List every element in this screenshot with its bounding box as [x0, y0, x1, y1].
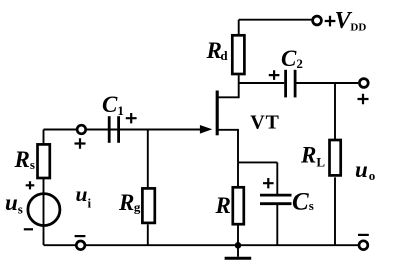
wire left branch vertical [43, 130, 45, 246]
wire R_L drop [334, 83, 336, 139]
wire C2 to output [296, 82, 358, 84]
label - of u_s [24, 228, 33, 230]
svg-text:ui: ui [76, 182, 92, 211]
wire R_L bottom [334, 177, 336, 245]
label - above input bottom terminal [75, 235, 86, 237]
wire R_g bottom [147, 224, 149, 245]
transistor VT channel bar [216, 91, 219, 136]
label - above output bottom terminal [358, 234, 369, 236]
wire bottom rail [44, 244, 359, 246]
resistor R_s [38, 144, 50, 178]
svg-text:DD: DD [350, 21, 366, 33]
terminal output top [359, 79, 368, 88]
wire C_s bottom [276, 204, 278, 245]
label + below input terminal [75, 138, 86, 148]
wire R drop [237, 162, 239, 186]
label + of C_s [263, 178, 274, 188]
svg-text:C2: C2 [281, 46, 303, 71]
wire source node horizontal [238, 161, 277, 163]
wire R_d top [238, 20, 240, 34]
capacitor C_s [260, 195, 292, 204]
wire VDD rail [239, 19, 312, 21]
svg-text:Rd: Rd [206, 38, 229, 63]
svg-text:C1: C1 [102, 92, 124, 118]
wire R_g drop [147, 130, 149, 188]
wire R bottom [237, 225, 239, 245]
label + of u_s [26, 181, 35, 189]
resistor R_L [330, 140, 341, 175]
ground [225, 245, 252, 258]
label + of C2 [269, 70, 280, 80]
svg-text:uo: uo [355, 157, 375, 183]
resistor R_g [142, 188, 154, 223]
svg-text:R: R [215, 193, 231, 218]
terminal input bottom [76, 241, 85, 250]
svg-text:us: us [5, 190, 23, 217]
capacitor C2 [286, 70, 296, 98]
junction dot [235, 242, 242, 249]
label + of output [358, 94, 369, 104]
wire input top [44, 129, 78, 131]
wire drain stub [218, 83, 238, 97]
svg-text:RL: RL [300, 143, 325, 170]
resistor R_d [232, 35, 244, 74]
label +VDD [325, 8, 367, 34]
svg-text:Rg: Rg [118, 190, 141, 215]
svg-text:Rs: Rs [14, 147, 35, 172]
capacitor C1 [109, 116, 118, 143]
svg-text:VT: VT [250, 112, 279, 134]
terminal +VDD [313, 16, 322, 25]
label + of C1 [126, 113, 137, 123]
wire C_s drop [276, 162, 278, 195]
resistor R [233, 187, 244, 224]
terminal input top [77, 125, 86, 134]
wire gate with arrow [86, 125, 212, 134]
terminal output bottom [359, 241, 368, 250]
wire source stub [219, 130, 239, 163]
source u_s circle [28, 194, 60, 226]
wire drain rail to C2 [239, 82, 285, 84]
svg-text:Cs: Cs [292, 188, 314, 215]
wire R_d bottom [238, 75, 240, 83]
